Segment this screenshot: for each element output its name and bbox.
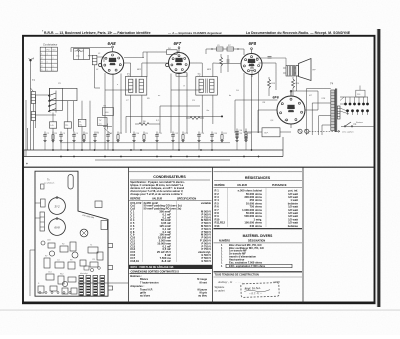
svg-text:C14: C14 bbox=[48, 272, 51, 274]
svg-text:— J — Imprimés CHANDS Argenteu: — J — Imprimés CHANDS Argenteur bbox=[168, 31, 223, 35]
svg-text:x: x bbox=[53, 65, 54, 67]
svg-text:fil vert: fil vert bbox=[199, 281, 207, 284]
svg-text:R12: R12 bbox=[60, 274, 63, 276]
svg-text:NOTA : VOIR PLAN DE CÂBLAG: NOTA : VOIR PLAN DE CÂBLAGE 196 bbox=[131, 266, 174, 269]
svg-text:NUMÉRO: NUMÉRO bbox=[219, 239, 230, 242]
svg-text:MATÉRIEL DIVERS: MATÉRIEL DIVERS bbox=[243, 233, 274, 238]
svg-text:R-R-R. — 13, Boulevard Lefebvr: R-R-R. — 13, Boulevard Lefebvre, Paris. … bbox=[44, 31, 151, 35]
svg-text:REPÈRE: REPÈRE bbox=[130, 197, 141, 200]
svg-text:Ampoules :: Ampoules : bbox=[130, 284, 144, 288]
svg-text:REPÈRE: REPÈRE bbox=[215, 184, 226, 187]
svg-text:R9: R9 bbox=[70, 260, 72, 262]
svg-text:2w: 2w bbox=[206, 110, 210, 112]
svg-text:x: x bbox=[53, 69, 54, 71]
svg-text:TOUS TENSIONS DE CONSTRUCTION: TOUS TENSIONS DE CONSTRUCTION bbox=[215, 274, 259, 277]
svg-text:TD: TD bbox=[65, 125, 68, 127]
svg-text:GO: GO bbox=[53, 49, 57, 51]
svg-text:x: x bbox=[47, 69, 48, 71]
svg-text:vers cadran: vers cadran bbox=[342, 132, 354, 134]
svg-text:R2: R2 bbox=[62, 244, 64, 246]
svg-text:0,1: 0,1 bbox=[156, 120, 159, 122]
svg-text:x: x bbox=[47, 53, 48, 55]
svg-text:d'usage pour T et M, et de ser: d'usage pour T et M, et de service conti… bbox=[130, 193, 183, 196]
svg-text:8+8 mF: 8+8 mF bbox=[162, 259, 172, 263]
svg-text:6V8: 6V8 bbox=[54, 225, 60, 229]
svg-text:au châssis: au châssis bbox=[44, 183, 55, 185]
svg-text:7 haute-tension: 7 haute-tension bbox=[140, 281, 159, 284]
svg-text:bobinée: bobinée bbox=[288, 224, 299, 228]
svg-text:HP: HP bbox=[313, 70, 317, 72]
svg-text:+: + bbox=[26, 162, 28, 166]
svg-text:Cm: Cm bbox=[285, 120, 288, 122]
svg-text:6F6: 6F6 bbox=[273, 96, 280, 100]
svg-text:T2: T2 bbox=[90, 245, 92, 247]
svg-text:variable: variable bbox=[201, 201, 212, 205]
svg-text:C11: C11 bbox=[92, 259, 95, 261]
svg-text:SPÉCIFICATION: SPÉCIFICATION bbox=[177, 197, 196, 200]
svg-text:La Documentation du Recevoir-R: La Documentation du Recevoir-Radio. — Ré… bbox=[246, 31, 351, 35]
svg-text:A: A bbox=[32, 58, 35, 61]
svg-text:Régl. 16 Avr.: Régl. 16 Avr. bbox=[244, 286, 261, 291]
svg-text:Combinateur: Combinateur bbox=[43, 44, 57, 47]
svg-text:R7: R7 bbox=[45, 256, 47, 258]
svg-text:au bleu: au bleu bbox=[198, 294, 207, 297]
svg-text:PUISSANCE: PUISSANCE bbox=[272, 184, 287, 187]
svg-text:VALEUR: VALEUR bbox=[152, 197, 162, 200]
svg-text:x: x bbox=[53, 57, 54, 59]
svg-text:MF1: MF1 bbox=[137, 69, 141, 71]
svg-text:CONDENSATEURS: CONDENSATEURS bbox=[153, 175, 186, 179]
svg-text:au blues: au blues bbox=[140, 294, 151, 297]
svg-text:LG: LG bbox=[51, 125, 54, 127]
svg-text:x: x bbox=[47, 61, 48, 63]
svg-text:Secteur: Secteur bbox=[356, 121, 363, 124]
svg-text:C18: C18 bbox=[47, 240, 50, 242]
svg-text:Exc. excitation 7.000 ohms: Exc. excitation 7.000 ohms bbox=[229, 260, 263, 264]
svg-text:1938: 1938 bbox=[273, 280, 280, 284]
svg-text:3Y2: 3Y2 bbox=[54, 204, 60, 208]
svg-text:6F8: 6F8 bbox=[249, 41, 257, 46]
svg-text:électrolyt.: électrolyt. bbox=[80, 272, 89, 275]
svg-text:bc: bc bbox=[229, 95, 231, 97]
svg-text:B.P.: B.P. bbox=[265, 133, 269, 135]
svg-text:. . . . . .: . . . . . . bbox=[235, 281, 243, 284]
svg-text:C4: C4 bbox=[57, 260, 59, 262]
svg-text:C18,19: C18,19 bbox=[130, 259, 139, 263]
svg-text:6F7: 6F7 bbox=[174, 41, 182, 46]
svg-text:RÉSISTANCES: RÉSISTANCES bbox=[245, 175, 271, 180]
svg-text:VALEUR: VALEUR bbox=[237, 184, 247, 187]
svg-text:R13: R13 bbox=[215, 224, 220, 228]
svg-text:E 500 V: E 500 V bbox=[201, 259, 211, 263]
svg-text:PO: PO bbox=[47, 49, 50, 51]
svg-text:6A8: 6A8 bbox=[108, 41, 117, 46]
svg-text:Signature: Signature bbox=[215, 286, 226, 289]
svg-text:DÉSIGNATION: DÉSIGNATION bbox=[248, 239, 265, 242]
svg-text:Bobines :: Bobines : bbox=[130, 274, 142, 278]
svg-text:340 ohms: 340 ohms bbox=[250, 224, 263, 228]
svg-text:ou cachet: ou cachet bbox=[215, 289, 225, 292]
